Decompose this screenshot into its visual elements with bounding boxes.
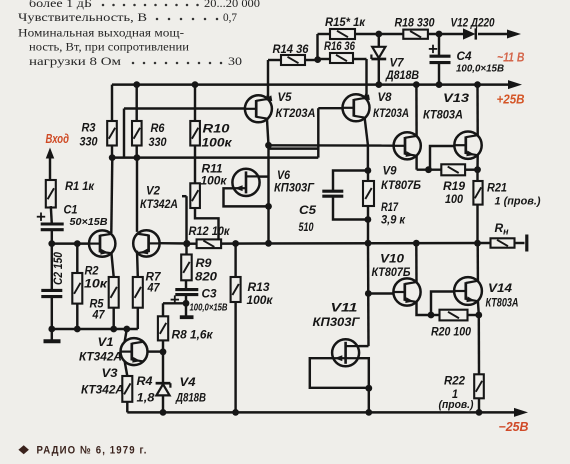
svg-text:R15* 1к: R15* 1к: [325, 15, 366, 29]
svg-text:V10: V10: [380, 252, 404, 266]
svg-text:1,8: 1,8: [137, 391, 155, 405]
svg-text:3,9 к: 3,9 к: [381, 213, 406, 227]
svg-text:V14: V14: [488, 281, 512, 295]
svg-text:С4: С4: [457, 49, 472, 63]
svg-text:100к: 100к: [202, 136, 233, 150]
svg-text:РАДИО № 6, 1979 г.: РАДИО № 6, 1979 г.: [37, 445, 148, 457]
svg-text:КТ342А: КТ342А: [79, 350, 122, 364]
svg-text:более 1 дБ: более 1 дБ: [29, 0, 92, 10]
svg-text:47: 47: [92, 308, 106, 322]
svg-text:30: 30: [228, 56, 242, 68]
svg-text:R10: R10: [203, 122, 230, 136]
svg-text:510: 510: [299, 220, 314, 234]
svg-text:R13: R13: [248, 280, 270, 294]
svg-text:КТ803А: КТ803А: [486, 296, 519, 310]
svg-text:0,7: 0,7: [223, 12, 237, 24]
svg-text:V3: V3: [102, 366, 118, 380]
svg-text:V8: V8: [378, 90, 392, 104]
svg-text:10к: 10к: [84, 277, 108, 291]
svg-text:R9: R9: [196, 256, 212, 270]
svg-text:КТ807Б: КТ807Б: [372, 265, 411, 279]
svg-text:100: 100: [445, 192, 463, 206]
svg-text:~11 В: ~11 В: [497, 51, 525, 65]
svg-text:КТ342А: КТ342А: [81, 383, 124, 397]
svg-text:100,0×15В: 100,0×15В: [190, 303, 228, 314]
svg-text:Чувствительность, В: Чувствительность, В: [18, 12, 147, 24]
svg-text:Вход: Вход: [46, 132, 70, 146]
svg-text:R3: R3: [82, 121, 96, 135]
svg-text:100к: 100к: [201, 174, 228, 188]
svg-text:820: 820: [195, 270, 217, 284]
svg-text:100к: 100к: [247, 293, 274, 307]
svg-text:С3: С3: [202, 287, 217, 301]
svg-text:Номинальная выходная мощ-: Номинальная выходная мощ-: [18, 28, 184, 40]
svg-text:R12 10к: R12 10к: [189, 224, 231, 238]
svg-text:КТ342А: КТ342А: [140, 197, 178, 211]
svg-text:КП303Г: КП303Г: [274, 181, 315, 195]
svg-text:С1: С1: [64, 203, 78, 217]
svg-text:R2: R2: [85, 264, 99, 278]
svg-text:R14 36: R14 36: [273, 42, 309, 56]
svg-text:V4: V4: [180, 375, 196, 389]
svg-text:R20 100: R20 100: [431, 325, 471, 339]
svg-text:V9: V9: [383, 164, 397, 178]
svg-text:V1: V1: [98, 335, 114, 349]
svg-text:ность, Вт, при сопротивлении: ность, Вт, при сопротивлении: [29, 42, 189, 54]
svg-text:20...20 000: 20...20 000: [204, 0, 260, 10]
svg-text:нагрузки 8 Ом: нагрузки 8 Ом: [29, 56, 121, 68]
svg-text:V13: V13: [443, 91, 469, 105]
svg-text:R22: R22: [444, 374, 465, 388]
svg-text:КП303Г: КП303Г: [313, 315, 361, 329]
svg-text:С2 150: С2 150: [53, 251, 65, 285]
svg-text:R19: R19: [443, 179, 465, 193]
svg-text:R1 1к: R1 1к: [65, 179, 95, 193]
svg-text:КТ803А: КТ803А: [423, 108, 463, 122]
svg-text:+25В: +25В: [497, 93, 525, 107]
svg-text:1 (пров.): 1 (пров.): [495, 196, 541, 208]
svg-text:V5: V5: [278, 90, 293, 104]
svg-text:R4: R4: [137, 374, 153, 388]
svg-text:КТ203А: КТ203А: [373, 106, 409, 120]
svg-text:50×15В: 50×15В: [70, 217, 108, 228]
svg-text:R8 1,6к: R8 1,6к: [172, 328, 214, 342]
svg-text:R18 330: R18 330: [395, 15, 435, 29]
svg-text:R16 36: R16 36: [324, 39, 355, 53]
svg-text:Д818В: Д818В: [175, 391, 206, 405]
svg-text:330: 330: [80, 135, 98, 149]
svg-text:47: 47: [147, 281, 161, 295]
svg-text:Д818В: Д818В: [385, 68, 419, 82]
svg-text:V2: V2: [146, 184, 160, 198]
svg-text:330: 330: [149, 135, 167, 149]
svg-text:(пров.): (пров.): [439, 399, 474, 411]
svg-text:100,0×15В: 100,0×15В: [456, 64, 504, 75]
svg-text:−25В: −25В: [499, 420, 529, 434]
svg-text:R21: R21: [487, 181, 507, 195]
svg-text:С5: С5: [299, 203, 317, 217]
svg-text:V12 Д220: V12 Д220: [451, 15, 495, 29]
svg-text:Rн: Rн: [495, 221, 510, 237]
svg-text:КТ807Б: КТ807Б: [381, 178, 421, 192]
svg-text:R6: R6: [151, 121, 165, 135]
svg-text:V11: V11: [331, 301, 358, 315]
svg-text:КТ203А: КТ203А: [276, 106, 316, 120]
